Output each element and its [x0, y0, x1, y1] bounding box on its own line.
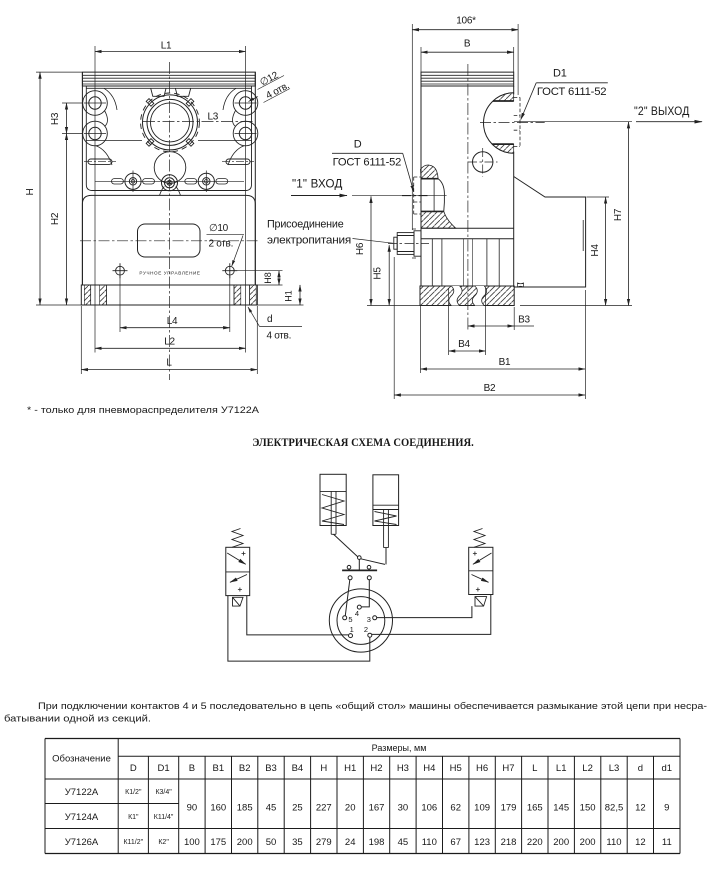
svg-text:У7124А: У7124А: [65, 812, 99, 823]
svg-text:К2": К2": [158, 839, 169, 846]
main circle centerlines: [143, 62, 254, 380]
corner hole boss bottom-right: [233, 121, 258, 146]
svg-text:30: 30: [398, 803, 409, 814]
svg-text:167: 167: [369, 803, 385, 814]
face plate outline: [86, 86, 251, 191]
small circle: [473, 152, 493, 172]
svg-text:24: 24: [345, 837, 356, 848]
right lower block: [514, 177, 586, 288]
wire left valve common bus to pin2: [228, 596, 370, 662]
face plate mid line: [86, 140, 251, 142]
wire terminal to pin4: [362, 580, 370, 607]
svg-text:L: L: [166, 358, 172, 369]
side pill centerlines: [84, 161, 254, 163]
electrical connector plug: [394, 229, 421, 258]
right valve body: [469, 547, 493, 594]
svg-text:25: 25: [292, 803, 303, 814]
svg-text:У7122А: У7122А: [65, 787, 99, 798]
connector outer circle: [329, 589, 392, 652]
linkage right diagonal: [361, 548, 386, 565]
svg-text:218: 218: [501, 837, 517, 848]
outlet axis: [480, 122, 545, 124]
svg-text:электропитания: электропитания: [267, 235, 351, 247]
svg-text:B1: B1: [212, 763, 224, 774]
center screw boss: [162, 175, 178, 191]
svg-text:279: 279: [316, 837, 332, 848]
svg-text:H2: H2: [370, 763, 382, 774]
inlet boss foot hatched: [421, 211, 456, 228]
svg-text:К11/4": К11/4": [154, 814, 174, 821]
switch pivot: [358, 556, 362, 560]
svg-text:198: 198: [369, 837, 385, 848]
svg-text:B3: B3: [265, 763, 277, 774]
screws row centerline: [95, 180, 244, 182]
switch bar: [342, 569, 377, 571]
switch contacts on bar: [347, 565, 351, 569]
left solenoid cylinder: [320, 474, 346, 534]
svg-text:82,5: 82,5: [605, 803, 624, 814]
svg-text:150: 150: [580, 803, 596, 814]
svg-text:РУЧНОЕ УПРАВЛЕНИЕ: РУЧНОЕ УПРАВЛЕНИЕ: [139, 271, 200, 276]
dim H6: [355, 196, 371, 305]
label connection power supply: [267, 219, 393, 247]
outlet bore hatch upper: [493, 93, 514, 101]
svg-text:1: 1: [350, 625, 354, 634]
svg-text:К3/4": К3/4": [155, 789, 172, 796]
svg-text:B: B: [189, 763, 195, 774]
dim B4: [449, 288, 486, 355]
svg-text:11: 11: [662, 837, 672, 848]
svg-text:90: 90: [187, 803, 198, 814]
body cap plate: [82, 72, 255, 86]
main port bore: [151, 103, 190, 142]
label D GOST with leader: [332, 139, 414, 193]
input arrow 1 VHOD: [291, 176, 347, 195]
svg-text:H3: H3: [50, 112, 61, 125]
small break mark: [518, 283, 524, 287]
svg-text:К1/2": К1/2": [125, 789, 142, 796]
svg-text:H7: H7: [502, 763, 514, 774]
dim H8: [230, 271, 283, 285]
corner hole bottom-right: [239, 127, 251, 139]
face curl top-left: [104, 88, 117, 110]
corner hole bottom-left: [89, 127, 101, 139]
side slot pill left: [88, 159, 112, 164]
face plate top contour: [86, 87, 251, 89]
right screw with slots: [198, 173, 214, 189]
base foot inner edges: [91, 285, 250, 305]
svg-text:179: 179: [501, 803, 517, 814]
svg-text:175: 175: [210, 837, 226, 848]
dim L2: [95, 337, 246, 349]
svg-text:L1: L1: [161, 41, 172, 52]
svg-text:106*: 106*: [456, 16, 476, 27]
label D1 GOST with leader: [521, 68, 608, 120]
outlet bore hatch lower: [492, 144, 514, 153]
lower front panel: [82, 195, 255, 285]
svg-text:B4: B4: [292, 763, 304, 774]
svg-text:160: 160: [210, 803, 226, 814]
screw skirt curves: [160, 187, 181, 196]
svg-text:H1: H1: [284, 290, 294, 302]
wire right valve to pin2: [372, 595, 491, 635]
svg-text:H6: H6: [476, 763, 488, 774]
svg-text:батывании одной из секций.: батывании одной из секций.: [4, 714, 151, 724]
pin 5: [343, 616, 347, 620]
svg-text:ГОСТ 6111-52: ГОСТ 6111-52: [333, 157, 402, 169]
dim B: [421, 39, 514, 73]
svg-text:Присоединение: Присоединение: [267, 219, 344, 231]
svg-text:100: 100: [184, 837, 200, 848]
wire terminal to pin5: [345, 580, 350, 616]
boss lower curls: [96, 146, 244, 165]
dim H7: [514, 122, 632, 306]
svg-text:12: 12: [635, 837, 646, 848]
svg-text:12: 12: [635, 803, 646, 814]
svg-text:L1: L1: [556, 763, 567, 774]
svg-text:B1: B1: [499, 357, 511, 368]
svg-text:45: 45: [398, 837, 409, 848]
svg-text:H4: H4: [423, 763, 435, 774]
svg-text:145: 145: [553, 803, 569, 814]
svg-text:110: 110: [422, 837, 437, 848]
svg-text:4: 4: [355, 609, 359, 618]
svg-text:H4: H4: [590, 244, 601, 257]
connector inner circle: [337, 597, 385, 645]
left valve arrows lower: [230, 575, 247, 583]
outlet port hidden dashes: [514, 97, 520, 146]
svg-text:106: 106: [421, 803, 437, 814]
manifold plate band: [421, 228, 514, 239]
main port circle outer: [143, 95, 198, 150]
inlet boss dome cap hatched: [421, 165, 439, 179]
svg-text:H5: H5: [373, 267, 384, 280]
svg-text:4 отв.: 4 отв.: [267, 331, 292, 342]
pin 2: [368, 633, 372, 637]
svg-text:B4: B4: [458, 339, 470, 350]
dim B2: [394, 257, 585, 399]
svg-text:Размеры, мм: Размеры, мм: [372, 743, 427, 753]
connector axis: [388, 243, 429, 245]
dia10 label with leader: [207, 223, 245, 266]
dim L4: [120, 276, 230, 332]
svg-text:L4: L4: [167, 316, 178, 327]
svg-text:ЭЛЕКТРИЧЕСКАЯ СХЕМА СОЕДИНЕНИЯ: ЭЛЕКТРИЧЕСКАЯ СХЕМА СОЕДИНЕНИЯ.: [252, 437, 474, 449]
svg-text:* - только для пневмораспредел: * - только для пневмораспределителя У712…: [27, 405, 259, 415]
svg-text:L3: L3: [609, 763, 620, 774]
svg-text:123: 123: [474, 837, 490, 848]
left screw with slots: [125, 173, 141, 189]
base hatch left foot: [84, 285, 90, 305]
svg-text:110: 110: [606, 837, 621, 848]
inlet boss right profile: [438, 179, 444, 211]
linkage left diagonal: [334, 534, 358, 556]
base hatch right foot: [234, 285, 241, 305]
svg-text:109: 109: [474, 803, 490, 814]
svg-text:2 отв.: 2 отв.: [209, 239, 234, 250]
dim L: [81, 306, 257, 374]
switch terminals: [348, 576, 352, 580]
pin 3: [373, 616, 377, 620]
main block edges: [421, 86, 514, 287]
dim H4: [587, 197, 610, 306]
svg-text:200: 200: [237, 837, 253, 848]
side slot pill right: [226, 159, 250, 164]
cap plate: [421, 72, 514, 86]
svg-text:200: 200: [553, 837, 569, 848]
svg-text:H8: H8: [263, 272, 273, 284]
corner hole boss top-right: [233, 91, 258, 116]
inlet bore bottom line: [421, 210, 444, 212]
svg-text:35: 35: [292, 837, 303, 848]
manual override hole left: [113, 263, 128, 278]
right block port edge: [582, 220, 584, 251]
svg-text:50: 50: [266, 837, 277, 848]
left valve coil box: [233, 597, 244, 606]
svg-text:d1: d1: [662, 763, 673, 774]
dim H1: [258, 285, 304, 305]
left valve arrows upper: [227, 553, 246, 564]
svg-text:3: 3: [367, 615, 371, 624]
right valve arrows lower: [472, 575, 489, 583]
svg-text:H6: H6: [355, 242, 366, 255]
svg-text:185: 185: [237, 803, 253, 814]
center axis side view: [467, 64, 469, 331]
table frame: [45, 738, 680, 740]
svg-text:B2: B2: [239, 763, 251, 774]
main port circle mid: [147, 99, 193, 145]
svg-text:Обозначение: Обозначение: [52, 754, 111, 765]
corner hole top-left: [89, 97, 101, 109]
svg-text:К11/2": К11/2": [123, 839, 143, 846]
right valve coil box: [475, 597, 487, 607]
svg-text:H7: H7: [613, 208, 624, 221]
inlet hidden thread dashes: [414, 177, 421, 214]
svg-text:"2" ВЫХОД: "2" ВЫХОД: [634, 104, 690, 118]
left valve body: [226, 547, 250, 595]
svg-text:H1: H1: [344, 763, 356, 774]
inlet axis extension: [352, 194, 447, 196]
corner hole boss top-left: [83, 91, 108, 116]
window centerline: [80, 240, 258, 242]
dim H5: [373, 245, 390, 305]
svg-text:D: D: [130, 763, 137, 774]
svg-text:L: L: [532, 763, 537, 774]
svg-text:∅10: ∅10: [209, 223, 229, 234]
svg-text:L3: L3: [208, 112, 219, 123]
wire left valve to pin1: [247, 596, 348, 635]
svg-text:67: 67: [450, 837, 461, 848]
svg-text:H3: H3: [397, 763, 409, 774]
dim B3: [468, 307, 534, 330]
wire right valve to pin3: [377, 606, 472, 618]
svg-text:200: 200: [580, 837, 596, 848]
body outline side edges: [82, 72, 255, 285]
bottom extension line left: [367, 305, 420, 307]
hole axis verticals (L1/L2 extension): [95, 46, 246, 353]
pivot stem: [358, 559, 360, 569]
right valve arrows upper: [473, 553, 492, 564]
right solenoid cylinder: [373, 475, 399, 548]
svg-text:9: 9: [664, 803, 669, 814]
boss waist curves: [105, 111, 236, 127]
svg-text:62: 62: [450, 803, 461, 814]
dim H3: [50, 103, 83, 134]
face tab left above circle: [151, 88, 166, 96]
svg-text:L2: L2: [582, 763, 593, 774]
dim L1: [95, 41, 246, 52]
outlet bore arc: [484, 93, 514, 153]
svg-text:B2: B2: [484, 383, 496, 394]
base plate: [81, 285, 257, 305]
svg-text:При подключении контактов 4 и: При подключении контактов 4 и 5 последов…: [38, 701, 707, 711]
corner hole top-right: [239, 97, 251, 109]
svg-text:45: 45: [266, 803, 277, 814]
thread dashed ring: [141, 93, 200, 152]
svg-text:165: 165: [527, 803, 543, 814]
left valve spring: [232, 529, 243, 548]
svg-text:D1: D1: [553, 68, 567, 80]
svg-text:2: 2: [364, 625, 368, 634]
svg-text:К1": К1": [128, 814, 139, 821]
base wavy breaks: [449, 286, 462, 306]
svg-text:H2: H2: [50, 212, 61, 225]
svg-text:d: d: [267, 314, 272, 325]
svg-text:5: 5: [348, 615, 352, 624]
svg-text:ГОСТ 6111-52: ГОСТ 6111-52: [537, 86, 607, 98]
hole cross ticks: [84, 103, 257, 134]
svg-text:220: 220: [527, 837, 543, 848]
svg-text:B3: B3: [518, 315, 530, 326]
svg-text:20: 20: [345, 803, 356, 814]
svg-text:"1" ВХОД: "1" ВХОД: [292, 176, 343, 190]
dim B1: [421, 290, 586, 399]
base plate side view: [420, 286, 514, 306]
svg-text:D: D: [354, 139, 362, 151]
svg-text:H: H: [25, 188, 36, 195]
svg-text:d: d: [638, 763, 643, 774]
svg-text:227: 227: [316, 803, 332, 814]
dim d 4otv with leader: [248, 307, 302, 342]
lower lobe circle: [154, 152, 186, 184]
svg-text:D1: D1: [158, 763, 170, 774]
cast lugs on ring: [146, 99, 194, 147]
dim 106*: [412, 16, 518, 231]
svg-text:H5: H5: [450, 763, 462, 774]
corner hole boss bottom-left: [83, 121, 108, 146]
manual override hole right: [222, 263, 237, 278]
right valve spring: [474, 529, 485, 548]
svg-text:У7126А: У7126А: [65, 837, 99, 848]
output arrow 2 VYHOD: [634, 104, 702, 122]
face curl top-right: [223, 88, 236, 110]
dim H2: [50, 134, 67, 306]
svg-text:B: B: [464, 39, 471, 50]
dim H: [25, 72, 82, 305]
pin 1: [349, 634, 353, 638]
internal verticals lower body: [432, 239, 499, 286]
dia12 label rotated with leader: [249, 70, 292, 103]
svg-text:L2: L2: [164, 337, 175, 348]
face tab right above circle: [175, 88, 190, 96]
pin 4: [357, 605, 361, 609]
window rounded rect: [138, 224, 201, 257]
svg-text:H: H: [320, 763, 327, 774]
